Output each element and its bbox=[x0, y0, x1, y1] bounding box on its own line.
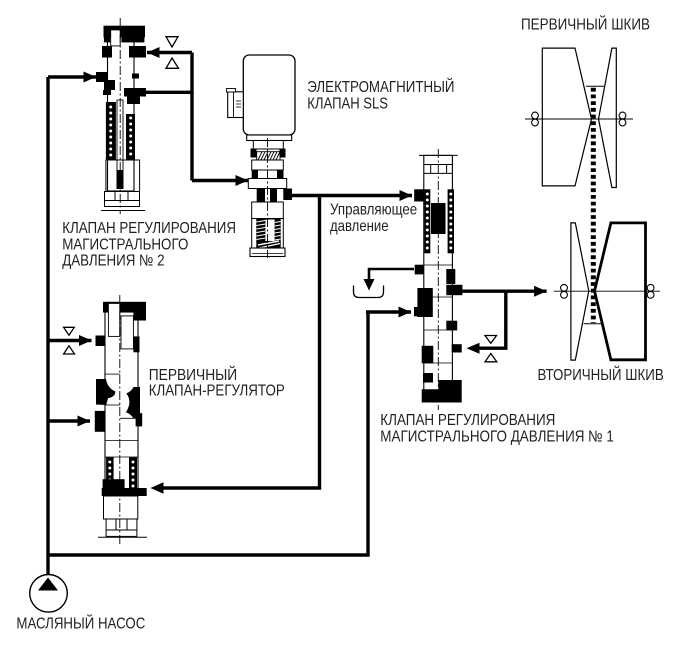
cap left leg bbox=[104, 38, 110, 43]
valve2 line pressure regulating valve No2 bbox=[96, 18, 146, 214]
svg-text:ДАВЛЕНИЯ № 2: ДАВЛЕНИЯ № 2 bbox=[62, 253, 164, 270]
spring bottom diagonal stripes bbox=[258, 241, 280, 248]
left port pump in bbox=[414, 307, 430, 316]
belt contact line top bbox=[586, 85, 604, 87]
flange bbox=[247, 135, 292, 141]
right block mid bbox=[446, 321, 457, 331]
spring box bbox=[252, 219, 284, 249]
spring white window bbox=[265, 220, 274, 242]
centerline horizontal bbox=[554, 290, 660, 292]
small right block bbox=[133, 336, 139, 352]
right block below port bbox=[127, 95, 140, 104]
belt contact line bottom bbox=[584, 323, 602, 325]
left big block bbox=[417, 288, 432, 317]
body outline bbox=[424, 155, 453, 395]
connector bbox=[228, 92, 244, 118]
wire arrow into valve2 top right bbox=[147, 51, 192, 54]
bottom cell box bbox=[106, 519, 137, 536]
bottom cell box bbox=[105, 192, 140, 207]
left small block bbox=[103, 90, 111, 95]
wire pump bottom horizontal bbox=[48, 312, 368, 555]
centerline bbox=[267, 138, 269, 258]
arrowhead regulator right bottom bbox=[151, 482, 164, 493]
left port drain bbox=[415, 265, 424, 275]
spring bar right bbox=[448, 189, 454, 253]
primary pulley bbox=[525, 48, 633, 187]
left port black bbox=[96, 336, 106, 347]
svg-text:КЛАПАН РЕГУЛИРОВАНИЯ: КЛАПАН РЕГУЛИРОВАНИЯ bbox=[380, 412, 555, 429]
svg-text:КЛАПАН РЕГУЛИРОВАНИЯ: КЛАПАН РЕГУЛИРОВАНИЯ bbox=[62, 220, 236, 237]
wire branch down return to valve1 bbox=[482, 291, 506, 348]
triangle pair regulator left bbox=[64, 327, 75, 354]
wire solenoid output control pressure bbox=[292, 194, 412, 197]
solenoid valve SLS bbox=[227, 55, 296, 258]
internal segment lines bbox=[105, 374, 138, 457]
hatch band side nubs bbox=[251, 149, 257, 158]
svg-text:МАГИСТРАЛЬНОГО: МАГИСТРАЛЬНОГО bbox=[62, 237, 188, 254]
bottom bar black bbox=[102, 488, 147, 496]
centerline horizontal bbox=[525, 118, 633, 120]
left wavy block bbox=[96, 379, 115, 405]
bottom foot bbox=[422, 380, 462, 403]
baseline tick bbox=[101, 210, 145, 212]
bottom left black bbox=[103, 479, 125, 492]
left port black control bbox=[414, 189, 424, 201]
body outline bbox=[108, 37, 135, 191]
lower white box bbox=[104, 496, 138, 519]
bearing right bbox=[619, 112, 626, 126]
internal segment lines bbox=[424, 265, 453, 363]
centerline bbox=[437, 149, 439, 410]
valve1 line pressure regulating valve No1 bbox=[414, 149, 462, 410]
top nut band bbox=[424, 165, 453, 174]
spring coil white lines right bbox=[275, 222, 281, 241]
spring dots right bbox=[129, 117, 132, 156]
svg-text:ПЕРВИЧНЫЙ: ПЕРВИЧНЫЙ bbox=[149, 365, 237, 384]
wire valve1 output to secondary pulley bbox=[462, 290, 547, 293]
wire valve2 right port loop bbox=[145, 53, 192, 93]
triangle pair valve2 top bbox=[166, 37, 179, 69]
stem wide segment bbox=[248, 179, 286, 189]
right wavy block bbox=[126, 387, 140, 418]
bearing left bbox=[561, 284, 568, 298]
spring bar left bbox=[106, 102, 116, 160]
body outline bbox=[105, 312, 138, 496]
side block right bbox=[129, 46, 146, 58]
triangle pair valve1 right bbox=[485, 336, 497, 362]
left port black 2 bbox=[95, 411, 105, 432]
top cap black bbox=[103, 302, 146, 313]
wire pump vertical main bbox=[46, 77, 49, 574]
spring bar right bbox=[126, 114, 135, 160]
side block left bbox=[102, 46, 112, 58]
wire arrow into solenoid left bbox=[192, 179, 248, 182]
left small lower bbox=[423, 373, 433, 383]
svg-text:МАСЛЯНЫЙ НАСОС: МАСЛЯНЫЙ НАСОС bbox=[16, 613, 145, 632]
right sheave sliver bbox=[599, 48, 617, 187]
stem segment 3 bbox=[252, 202, 284, 219]
wire arrow into valve1 right return bbox=[479, 347, 482, 350]
right white box bbox=[121, 316, 133, 349]
bearing right bbox=[647, 284, 654, 298]
hatch band bbox=[257, 152, 280, 160]
spring bar left bbox=[106, 457, 114, 492]
primary regulator valve bbox=[95, 295, 147, 545]
spring dots bbox=[426, 193, 453, 250]
centerline bbox=[119, 18, 121, 214]
left sheave bbox=[542, 48, 591, 186]
svg-text:ЭЛЕКТРОМАГНИТНЫЙ: ЭЛЕКТРОМАГНИТНЫЙ bbox=[307, 77, 454, 96]
black bits bbox=[252, 170, 258, 179]
svg-text:ПЕРВИЧНЫЙ ШКИВ: ПЕРВИЧНЫЙ ШКИВ bbox=[521, 14, 650, 33]
left sheave sliver bbox=[571, 223, 589, 360]
svg-text:давление: давление bbox=[330, 218, 389, 235]
wire valve2 to solenoid bbox=[190, 92, 193, 180]
bottom cap bbox=[250, 248, 285, 257]
svg-text:МАГИСТРАЛЬНОГО ДАВЛЕНИЯ № 1: МАГИСТРАЛЬНОГО ДАВЛЕНИЯ № 1 bbox=[380, 429, 614, 446]
centerline bbox=[119, 295, 121, 545]
svg-text:Управляющее: Управляющее bbox=[330, 201, 417, 218]
right sheave thick bbox=[595, 223, 646, 360]
wire branch down to regulator bbox=[163, 196, 320, 489]
svg-text:КЛАПАН SLS: КЛАПАН SLS bbox=[307, 95, 388, 112]
oil pump bbox=[30, 575, 68, 613]
left port black bbox=[96, 72, 107, 82]
top hline bbox=[419, 154, 458, 156]
stem segment 1 bbox=[253, 141, 283, 150]
baseline tick bbox=[98, 536, 147, 538]
stem segment 2 bbox=[252, 160, 284, 170]
right port output bbox=[446, 285, 462, 295]
right small block bbox=[136, 413, 143, 426]
center rod bbox=[117, 100, 123, 180]
lower white box bbox=[106, 160, 140, 192]
cap right arm bbox=[121, 38, 144, 43]
right port black bbox=[283, 189, 292, 201]
spring black mass bbox=[256, 219, 280, 249]
center spool black bbox=[431, 203, 446, 234]
body bbox=[243, 55, 295, 135]
cap right leg bbox=[133, 313, 146, 321]
drain cup bbox=[354, 286, 384, 298]
top white notch bbox=[108, 303, 119, 336]
black blocks mid bbox=[257, 189, 265, 203]
belt dashed bbox=[591, 88, 596, 323]
spring coil white lines left bbox=[257, 221, 266, 240]
spring bar left bbox=[424, 189, 430, 253]
right port return bbox=[452, 344, 462, 352]
spring bar right bbox=[129, 457, 137, 492]
spring dots bbox=[108, 461, 134, 488]
spring dots left bbox=[109, 106, 112, 157]
svg-text:ВТОРИЧНЫЙ ШКИВ: ВТОРИЧНЫЙ ШКИВ bbox=[538, 365, 664, 384]
secondary pulley bbox=[554, 223, 660, 360]
left block bbox=[104, 80, 115, 90]
wire arrow into valve2 left bbox=[48, 75, 96, 78]
left block lower bbox=[422, 346, 434, 364]
wire arrow into valve1 left lower bbox=[366, 310, 411, 313]
right block upper bbox=[446, 269, 455, 284]
bearing left bbox=[532, 112, 539, 126]
top cap black bbox=[104, 26, 146, 38]
svg-text:КЛАПАН-РЕГУЛЯТОР: КЛАПАН-РЕГУЛЯТОР bbox=[149, 382, 285, 399]
top white notch bbox=[111, 30, 121, 46]
right port black bbox=[124, 88, 146, 97]
wire arrow into regulator left lower bbox=[48, 419, 90, 422]
rod black tip bbox=[117, 170, 124, 189]
wire drain from valve1 bbox=[369, 269, 414, 280]
right bump bbox=[132, 74, 139, 79]
arrowhead drain down bbox=[364, 279, 375, 291]
wire arrow into regulator left upper bbox=[48, 339, 92, 342]
